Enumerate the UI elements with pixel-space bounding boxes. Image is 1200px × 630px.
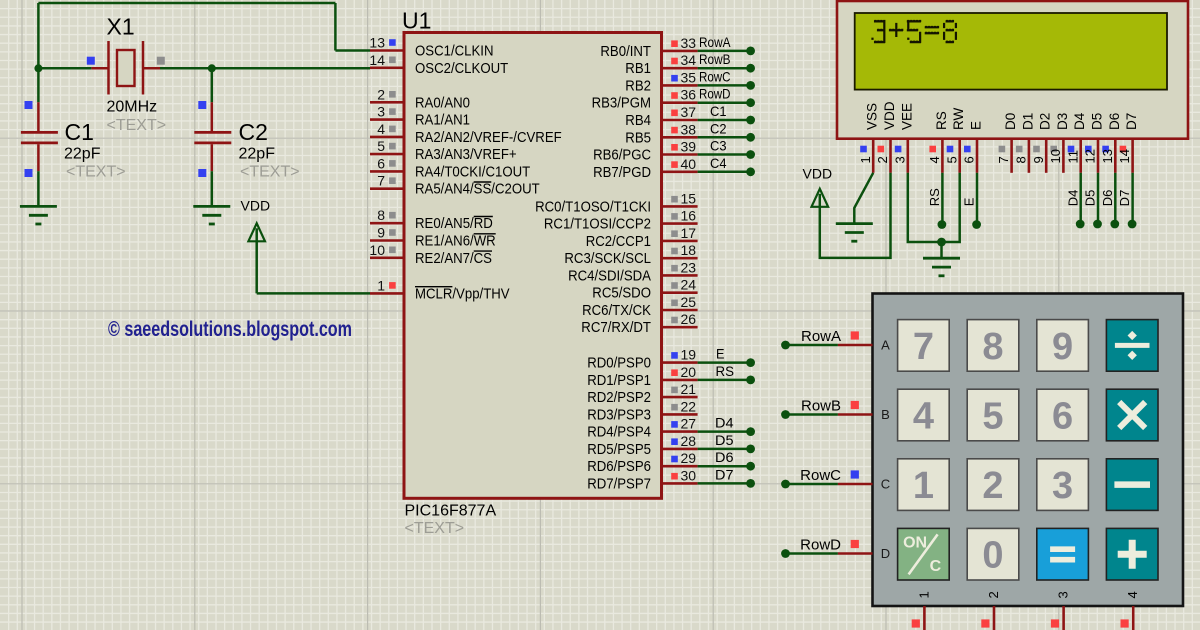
svg-text:RC4/SDI/SDA: RC4/SDI/SDA <box>568 267 651 284</box>
svg-text:RW: RW <box>951 107 966 130</box>
wire crystal to C2 junction and pin 14 <box>160 67 370 70</box>
svg-text:<TEXT>: <TEXT> <box>240 164 300 181</box>
svg-text:RS: RS <box>934 111 949 130</box>
svg-text:2: 2 <box>982 465 1003 507</box>
keypad button multiply <box>1106 389 1158 441</box>
svg-text:D2: D2 <box>1038 113 1053 130</box>
wire net C4 from U1 <box>698 171 747 174</box>
svg-text:D: D <box>881 546 890 561</box>
svg-text:6: 6 <box>1052 396 1073 438</box>
svg-text:D6: D6 <box>1100 190 1115 207</box>
svg-text:PIC16F877A: PIC16F877A <box>405 503 497 520</box>
op-amp U1 PIC16F877A body <box>404 33 662 499</box>
U1 pin 37 (RB4) <box>662 119 698 122</box>
keypad button divide <box>1106 320 1158 372</box>
svg-text:X1: X1 <box>107 14 135 40</box>
wire net D4 from U1 <box>698 430 747 433</box>
wire net C1 from U1 <box>698 119 747 122</box>
svg-text:33: 33 <box>681 35 697 51</box>
wire net RS (LCD) <box>941 173 944 221</box>
wire net E from U1 <box>698 361 747 364</box>
U1 pin 21 (RD2/PSP2) <box>662 396 698 399</box>
svg-text:12: 12 <box>1083 149 1098 163</box>
svg-text:<TEXT>: <TEXT> <box>107 117 167 134</box>
wire net D5 (LCD) <box>1097 173 1100 221</box>
wire net D6 from U1 <box>698 465 747 468</box>
wire LCD VSS to ground <box>854 173 873 224</box>
svg-text:RowD: RowD <box>800 537 841 554</box>
U1 pin 19 (RD0/PSP0) <box>662 361 698 364</box>
svg-text:24: 24 <box>681 277 697 293</box>
svg-text:23: 23 <box>681 259 697 275</box>
svg-text:RowB: RowB <box>699 51 731 67</box>
svg-text:B: B <box>881 407 890 422</box>
svg-text:D4: D4 <box>715 415 734 431</box>
svg-text:14: 14 <box>1117 149 1132 163</box>
svg-text:1: 1 <box>916 591 931 598</box>
svg-text:D0: D0 <box>1003 113 1018 130</box>
svg-text:RC1/T1OSI/CCP2: RC1/T1OSI/CCP2 <box>544 216 651 233</box>
wire net RowA from U1 <box>698 50 747 53</box>
svg-text:VDD: VDD <box>803 166 833 182</box>
svg-text:RA0/AN0: RA0/AN0 <box>415 94 470 111</box>
wire net D4 (LCD) <box>1079 173 1082 221</box>
svg-text:RD6/PSP6: RD6/PSP6 <box>587 458 651 475</box>
svg-text:1: 1 <box>858 156 873 163</box>
svg-text:9: 9 <box>1052 326 1073 368</box>
capacitor C1 <box>37 68 40 102</box>
svg-text:3: 3 <box>1056 591 1071 598</box>
svg-text:28: 28 <box>681 433 697 449</box>
wire net RowC from U1 <box>698 84 747 87</box>
svg-text:RB0/INT: RB0/INT <box>600 43 651 60</box>
svg-text:3: 3 <box>892 156 907 163</box>
U1 pin 29 (RD6/PSP6) <box>662 465 698 468</box>
svg-text:1: 1 <box>377 277 385 293</box>
LCD screen <box>855 13 1167 90</box>
U1 pin 38 (RB5) <box>662 136 698 139</box>
svg-text:14: 14 <box>369 52 385 68</box>
svg-text:26: 26 <box>681 311 697 327</box>
U1 pin 30 (RD7/PSP7) <box>662 482 698 485</box>
keypad button ON/C <box>898 528 950 580</box>
svg-text:13: 13 <box>369 35 385 51</box>
svg-text:6: 6 <box>962 156 977 163</box>
capacitor C2 <box>211 68 214 102</box>
svg-text:18: 18 <box>681 242 697 258</box>
svg-text:5: 5 <box>982 396 1003 438</box>
crystal X1 <box>91 67 108 70</box>
svg-text:RB6/PGC: RB6/PGC <box>593 147 651 164</box>
keypad button 3 <box>1037 459 1089 511</box>
keypad button minus <box>1106 459 1158 511</box>
svg-text:VDD: VDD <box>241 198 271 214</box>
wire VDD to MCLR <box>255 241 258 293</box>
LCD module LCD1 body <box>837 1 1188 139</box>
svg-text:9: 9 <box>1031 156 1046 163</box>
wire OSC1 vertical <box>334 3 337 51</box>
U1 pin 24 (RC5/SDO) <box>662 291 698 294</box>
svg-text:8: 8 <box>1014 156 1029 163</box>
svg-text:7: 7 <box>913 326 934 368</box>
U1 pin 2 (RA0/AN0) <box>370 101 404 104</box>
wire net RS from U1 <box>698 379 747 382</box>
wire net RowB (keypad) <box>781 410 790 419</box>
svg-text:OSC1/CLKIN: OSC1/CLKIN <box>415 43 494 60</box>
svg-text:C2: C2 <box>239 119 268 145</box>
wire net RowB from U1 <box>698 67 747 70</box>
svg-text:C2: C2 <box>710 120 727 136</box>
svg-text:22: 22 <box>681 398 697 414</box>
svg-text:20: 20 <box>681 364 697 380</box>
svg-text:RD4/PSP4: RD4/PSP4 <box>587 424 651 441</box>
svg-text:RC0/T1OSO/T1CKI: RC0/T1OSO/T1CKI <box>535 198 651 215</box>
svg-text:A: A <box>881 338 890 353</box>
svg-text:8: 8 <box>982 326 1003 368</box>
svg-text:VSS: VSS <box>865 103 880 130</box>
svg-text:D5: D5 <box>715 432 734 448</box>
svg-text:RD0/PSP0: RD0/PSP0 <box>587 355 651 372</box>
U1 pin 39 (RB6/PGC) <box>662 153 698 156</box>
svg-text:RE1/AN6/WR: RE1/AN6/WR <box>415 233 496 250</box>
svg-text:RC3/SCK/SCL: RC3/SCK/SCL <box>564 250 651 267</box>
svg-text:RB3/PGM: RB3/PGM <box>592 95 651 112</box>
svg-text:RE0/AN5/RD: RE0/AN5/RD <box>415 215 493 232</box>
svg-text:C4: C4 <box>710 155 727 171</box>
U1 pin 28 (RD5/PSP5) <box>662 448 698 451</box>
keypad column pin 2 <box>993 606 996 630</box>
U1 pin 17 (RC2/CCP1) <box>662 240 698 243</box>
svg-text:4: 4 <box>913 396 934 438</box>
LCD display text 3+5=8 <box>871 20 957 43</box>
node junction crystal/C1 <box>34 64 42 72</box>
ground LCD VEE/RW <box>923 257 960 260</box>
wire top loop horizontal <box>38 2 335 5</box>
U1 pin 26 (RC7/RX/DT) <box>662 326 698 329</box>
U1 pin 6 (RA4/T0CKI/C1OUT) <box>370 170 404 173</box>
svg-text:RA5/AN4/SS/C2OUT: RA5/AN4/SS/C2OUT <box>415 181 540 198</box>
svg-text:RB2: RB2 <box>625 77 651 94</box>
svg-text:2: 2 <box>986 591 1001 598</box>
svg-text:7: 7 <box>996 156 1011 163</box>
svg-text:0: 0 <box>982 535 1003 577</box>
wire net RowC (keypad) <box>781 480 790 489</box>
svg-text:RA1/AN1: RA1/AN1 <box>415 112 470 129</box>
keypad button 1 <box>898 459 950 511</box>
svg-text:RB5: RB5 <box>625 129 651 146</box>
keypad button 9 <box>1037 320 1089 372</box>
wire left vertical (crystal to top loop) <box>37 3 40 68</box>
svg-text:5: 5 <box>944 156 959 163</box>
U1 pin 4 (RA2/AN2/VREF-/CVREF) <box>370 136 404 139</box>
svg-text:OSC2/CLKOUT: OSC2/CLKOUT <box>415 60 508 77</box>
svg-text:15: 15 <box>681 190 697 206</box>
U1 pin 27 (RD4/PSP4) <box>662 430 698 433</box>
svg-text:RE2/AN7/CS: RE2/AN7/CS <box>415 250 492 267</box>
svg-text:9: 9 <box>377 225 385 241</box>
keypad button equals <box>1037 528 1089 580</box>
svg-text:5: 5 <box>377 138 385 154</box>
svg-text:4: 4 <box>377 121 385 137</box>
svg-text:RowA: RowA <box>801 328 841 345</box>
svg-text:3: 3 <box>377 104 385 120</box>
keypad button 7 <box>898 320 950 372</box>
U1 pin 15 (RC0/T1OSO/T1CKI) <box>662 205 698 208</box>
svg-text:C1: C1 <box>710 103 727 119</box>
svg-text:RB4: RB4 <box>625 112 651 129</box>
svg-text:D4: D4 <box>1065 190 1080 207</box>
svg-text:C1: C1 <box>65 119 94 145</box>
keypad button 5 <box>967 389 1019 441</box>
svg-text:D4: D4 <box>1072 112 1087 130</box>
U1 pin 18 (RC3/SCK/SCL) <box>662 257 698 260</box>
svg-text:U1: U1 <box>402 8 431 34</box>
U1 pin 1 (MCLR/Vpp/THV) <box>370 292 404 295</box>
svg-text:6: 6 <box>377 155 385 171</box>
wire LCD RW to ground junction <box>942 173 960 242</box>
svg-text:RS: RS <box>927 188 942 206</box>
U1 pin 34 (RB1) <box>662 67 698 70</box>
U1 pin 35 (RB2) <box>662 84 698 87</box>
svg-text:<TEXT>: <TEXT> <box>405 520 465 537</box>
U1 pin 23 (RC4/SDI/SDA) <box>662 274 698 277</box>
svg-text:30: 30 <box>681 467 697 483</box>
svg-text:34: 34 <box>681 52 697 68</box>
wire net RowD from U1 <box>698 101 747 104</box>
wire net C3 from U1 <box>698 153 747 156</box>
U1 pin 7 (RA5/AN4/SS/C2OUT) <box>370 187 404 190</box>
svg-text:D5: D5 <box>1083 190 1098 207</box>
svg-text:RS: RS <box>716 363 735 379</box>
svg-text:38: 38 <box>681 121 697 137</box>
U1 pin 8 (RE0/AN5/RD) <box>370 222 404 225</box>
svg-text:40: 40 <box>681 156 697 172</box>
keypad button 6 <box>1037 389 1089 441</box>
svg-text:D7: D7 <box>715 466 734 482</box>
svg-text:C3: C3 <box>710 138 727 154</box>
svg-text:21: 21 <box>681 381 697 397</box>
svg-text:RC2/CCP1: RC2/CCP1 <box>586 233 651 250</box>
svg-text:10: 10 <box>369 242 385 258</box>
svg-text:11: 11 <box>1065 150 1080 164</box>
svg-text:D6: D6 <box>1107 113 1122 130</box>
svg-text:RC7/RX/DT: RC7/RX/DT <box>581 319 651 336</box>
svg-text:RD3/PSP3: RD3/PSP3 <box>587 406 651 423</box>
svg-text:20MHz: 20MHz <box>107 99 158 116</box>
svg-text:D3: D3 <box>1055 113 1070 130</box>
svg-text:RC6/TX/CK: RC6/TX/CK <box>582 302 651 319</box>
svg-text:8: 8 <box>377 207 385 223</box>
svg-text:D6: D6 <box>715 449 734 465</box>
wire VDD to LCD pin2 <box>820 173 891 258</box>
svg-text:RD1/PSP1: RD1/PSP1 <box>587 372 651 389</box>
svg-text:D5: D5 <box>1090 113 1105 130</box>
svg-text:RA2/AN2/VREF-/CVREF: RA2/AN2/VREF-/CVREF <box>415 129 562 146</box>
svg-text:RowA: RowA <box>699 34 731 50</box>
U1 pin 36 (RB3/PGM) <box>662 101 698 104</box>
U1 pin 16 (RC1/T1OSI/CCP2) <box>662 222 698 225</box>
svg-text:RC5/SDO: RC5/SDO <box>592 285 651 302</box>
svg-text:1: 1 <box>913 465 934 507</box>
svg-text:RA3/AN3/VREF+: RA3/AN3/VREF+ <box>415 146 517 163</box>
svg-text:25: 25 <box>681 294 697 310</box>
svg-text:10: 10 <box>1048 149 1063 163</box>
keypad column pin 4 <box>1132 606 1135 630</box>
svg-text:3: 3 <box>1052 465 1073 507</box>
U1 pin 40 (RB7/PGD) <box>662 171 698 174</box>
svg-text:39: 39 <box>681 139 697 155</box>
U1 pin 14 (OSC2/CLKOUT) <box>370 67 404 70</box>
svg-text:<TEXT>: <TEXT> <box>66 164 126 181</box>
svg-text:MCLR/Vpp/THV: MCLR/Vpp/THV <box>415 285 510 302</box>
svg-text:4: 4 <box>927 156 942 163</box>
wire crystal row: junction to crystal <box>38 67 91 70</box>
svg-text:D7: D7 <box>1124 113 1139 130</box>
svg-text:2: 2 <box>377 86 385 102</box>
svg-text:E: E <box>716 346 725 362</box>
U1 pin 25 (RC6/TX/CK) <box>662 309 698 312</box>
wire net E (LCD) <box>976 173 979 221</box>
U1 pin 5 (RA3/AN3/VREF+) <box>370 153 404 156</box>
wire net D7 (LCD) <box>1131 173 1134 221</box>
keypad button 4 <box>898 389 950 441</box>
U1 pin 22 (RD3/PSP3) <box>662 413 698 416</box>
svg-text:D7: D7 <box>1117 190 1132 207</box>
svg-text:C: C <box>930 558 942 575</box>
svg-text:RowB: RowB <box>801 398 841 415</box>
wire net D5 from U1 <box>698 448 747 451</box>
keypad button 8 <box>967 320 1019 372</box>
svg-text:VDD: VDD <box>882 101 897 130</box>
U1 pin 13 (OSC1/CLKIN) <box>370 49 404 52</box>
svg-text:RowD: RowD <box>699 86 731 102</box>
svg-text:RD7/PSP7: RD7/PSP7 <box>587 475 651 492</box>
keypad button plus <box>1106 528 1158 580</box>
svg-text:RowC: RowC <box>800 467 841 484</box>
ground LCD VSS <box>836 222 873 225</box>
ground under C2 <box>193 205 230 208</box>
svg-text:7: 7 <box>377 173 385 189</box>
wire OSC1 horizontal to pin 13 <box>335 49 370 52</box>
svg-text:© saeedsolutions.blogspot.com: © saeedsolutions.blogspot.com <box>108 318 352 341</box>
svg-text:RB7/PGD: RB7/PGD <box>593 164 651 181</box>
svg-text:E: E <box>962 197 977 206</box>
node junction crystal/C2 <box>208 64 216 72</box>
svg-text:16: 16 <box>681 208 697 224</box>
wire net RowD (keypad) <box>781 549 790 558</box>
keypad body <box>873 294 1184 607</box>
svg-text:VEE: VEE <box>899 103 914 130</box>
keypad button 0 <box>967 528 1019 580</box>
keypad column pin 1 <box>923 606 926 630</box>
wire LCD VEE to ground junction <box>908 173 942 242</box>
wire net RowA (keypad) <box>781 341 790 350</box>
ground under C1 <box>20 205 57 208</box>
svg-text:22pF: 22pF <box>239 146 276 163</box>
svg-text:RA4/T0CKI/C1OUT: RA4/T0CKI/C1OUT <box>415 163 530 180</box>
svg-text:RB1: RB1 <box>625 60 651 77</box>
svg-text:D1: D1 <box>1020 113 1035 130</box>
keypad button 2 <box>967 459 1019 511</box>
wire net C2 from U1 <box>698 136 747 139</box>
svg-text:22pF: 22pF <box>64 146 101 163</box>
svg-text:29: 29 <box>681 450 697 466</box>
svg-text:ON: ON <box>903 535 927 552</box>
svg-text:C: C <box>881 477 890 492</box>
U1 pin 33 (RB0/INT) <box>662 50 698 53</box>
svg-text:13: 13 <box>1100 149 1115 163</box>
node ground junction <box>937 238 946 247</box>
svg-text:RD2/PSP2: RD2/PSP2 <box>587 389 651 406</box>
svg-text:17: 17 <box>681 225 697 241</box>
svg-text:2: 2 <box>875 156 890 163</box>
svg-text:E: E <box>969 121 984 130</box>
svg-text:37: 37 <box>681 104 697 120</box>
svg-text:35: 35 <box>681 69 697 85</box>
wire junction to ground <box>940 242 943 258</box>
keypad column pin 3 <box>1062 606 1065 630</box>
svg-text:RD5/PSP5: RD5/PSP5 <box>587 441 651 458</box>
U1 pin 9 (RE1/AN6/WR) <box>370 239 404 242</box>
U1 pin 10 (RE2/AN7/CS) <box>370 256 404 259</box>
wire net D7 from U1 <box>698 482 747 485</box>
svg-text:19: 19 <box>681 347 697 363</box>
U1 pin 3 (RA1/AN1) <box>370 118 404 121</box>
wire net D6 (LCD) <box>1114 173 1117 221</box>
svg-text:4: 4 <box>1125 591 1140 598</box>
svg-text:RowC: RowC <box>699 68 731 84</box>
svg-text:36: 36 <box>681 87 697 103</box>
svg-text:27: 27 <box>681 416 697 432</box>
U1 pin 20 (RD1/PSP1) <box>662 379 698 382</box>
